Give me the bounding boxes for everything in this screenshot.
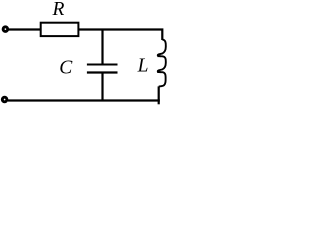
terminal bottom-left xyxy=(2,97,7,102)
inductor L coil (3 turns) xyxy=(158,40,166,87)
inductor coil cusp loop 2 xyxy=(157,71,161,73)
resistor R xyxy=(41,23,79,36)
svg-text:L: L xyxy=(137,56,149,77)
terminal top-left xyxy=(3,27,8,32)
inductor coil cusp loop 1 xyxy=(157,55,161,57)
wire top-left (terminal to resistor) xyxy=(9,28,41,30)
wire top (resistor to top-right corner, then down to coil) xyxy=(78,30,162,41)
background xyxy=(0,0,168,108)
svg-text:R: R xyxy=(52,0,65,20)
capacitor C bottom plate xyxy=(87,71,118,73)
wire bottom xyxy=(8,99,160,101)
capacitor top lead xyxy=(101,30,103,65)
inductor bottom lead xyxy=(158,86,160,104)
capacitor C top plate xyxy=(87,63,118,65)
svg-text:C: C xyxy=(59,57,73,78)
capacitor bottom lead xyxy=(101,73,103,101)
